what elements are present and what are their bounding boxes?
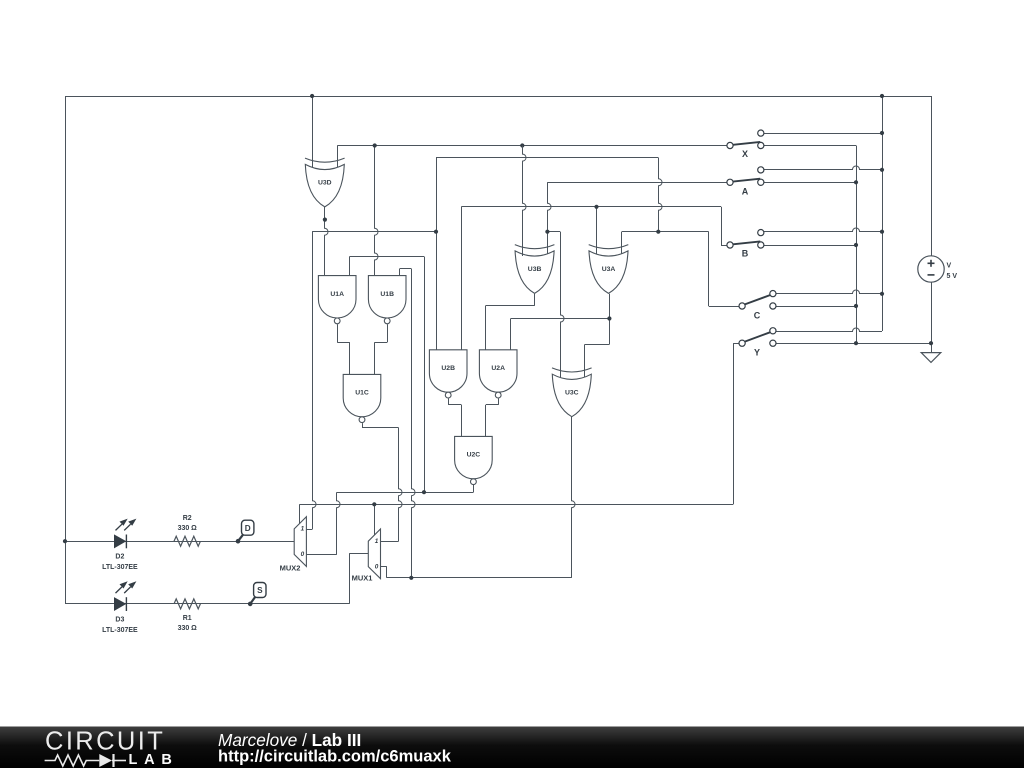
svg-text:U1B: U1B	[380, 291, 394, 298]
svg-text:B: B	[742, 248, 749, 258]
svg-text:330 Ω: 330 Ω	[178, 625, 198, 632]
svg-text:http://circuitlab.com/c6muaxk: http://circuitlab.com/c6muaxk	[218, 748, 452, 766]
svg-text:U3B: U3B	[528, 266, 542, 273]
svg-text:R1: R1	[183, 615, 192, 622]
svg-text:MUX1: MUX1	[352, 573, 373, 582]
svg-text:U2C: U2C	[467, 452, 481, 459]
svg-text:Y: Y	[754, 348, 760, 358]
svg-text:0: 0	[301, 551, 305, 558]
svg-text:D3: D3	[115, 616, 124, 623]
svg-text:LTL-307EE: LTL-307EE	[102, 627, 138, 634]
svg-text:330 Ω: 330 Ω	[178, 525, 198, 532]
svg-text:X: X	[742, 149, 748, 159]
svg-text:S: S	[257, 586, 263, 595]
svg-text:MUX2: MUX2	[280, 564, 301, 573]
svg-text:5 V: 5 V	[947, 273, 958, 280]
svg-text:0: 0	[375, 564, 379, 571]
svg-text:D: D	[245, 524, 251, 533]
svg-text:U3C: U3C	[565, 390, 579, 397]
svg-text:U2B: U2B	[441, 365, 455, 372]
svg-text:1: 1	[301, 526, 305, 533]
svg-text:U1C: U1C	[355, 390, 369, 397]
svg-text:U2A: U2A	[491, 365, 505, 372]
svg-text:LTL-307EE: LTL-307EE	[102, 564, 138, 571]
svg-text:D2: D2	[115, 554, 124, 561]
svg-text:U3A: U3A	[602, 266, 616, 273]
svg-text:C: C	[754, 310, 761, 320]
svg-text:LAB: LAB	[129, 752, 179, 768]
svg-text:R2: R2	[183, 515, 192, 522]
svg-text:U1A: U1A	[330, 291, 344, 298]
svg-text:U3D: U3D	[318, 180, 332, 187]
svg-text:V: V	[947, 262, 952, 269]
svg-text:1: 1	[375, 538, 379, 545]
svg-text:A: A	[742, 187, 749, 197]
